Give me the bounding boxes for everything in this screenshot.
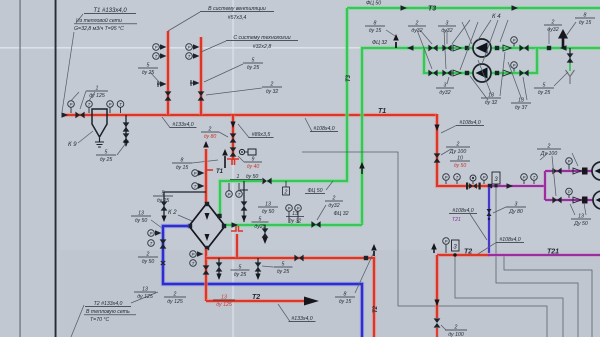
label 5/du25 strainer [534, 87, 554, 89]
gauge T on T1 [86, 101, 93, 108]
label 13/du50 K2 [131, 215, 151, 217]
tag box 3 T2 [452, 240, 460, 251]
arrow up on suction riser [361, 168, 363, 174]
gauges on blue [148, 230, 155, 237]
drain on green bottom line [264, 225, 266, 240]
svg-text:ду 25: ду 25 [157, 198, 170, 204]
relief return stub [235, 234, 239, 258]
svg-text:ду 15: ду 15 [579, 20, 592, 26]
vent arrow top of K2 feed [203, 141, 209, 148]
pipe T21 purple [488, 253, 600, 257]
svg-text:#108х4,0: #108х4,0 [452, 208, 473, 214]
gauges on K2 outlet [190, 251, 197, 258]
arrow left after merge [560, 45, 567, 50]
svg-text:2: 2 [547, 143, 551, 149]
flange lower pump [573, 197, 581, 203]
svg-text:#108х4,0: #108х4,0 [499, 237, 520, 243]
label 2/du32 [262, 86, 282, 88]
arrow on green bottom [232, 222, 239, 227]
svg-text:2: 2 [208, 126, 212, 132]
vent arrow at collector corner [373, 251, 375, 256]
pipe pump upper branch [424, 46, 600, 50]
arrow T3 top 1 [401, 5, 408, 10]
gauge upper pump [566, 158, 573, 165]
label 5/du25 drain [96, 154, 116, 156]
svg-text:5: 5 [259, 216, 262, 222]
label 13/du32 green bottom [286, 216, 304, 218]
label 2/du32 right [544, 24, 562, 26]
valve1 upper branch [428, 45, 437, 52]
label Du100 pumps [537, 148, 561, 150]
pipe purple header [490, 184, 545, 188]
svg-text:2: 2 [270, 81, 274, 87]
label 13/du125 red [213, 299, 235, 301]
vent arrow at T2 corner [433, 249, 435, 253]
arrow down on T1 drop [434, 125, 439, 132]
svg-text:Р: Р [70, 102, 73, 107]
svg-text:13: 13 [292, 211, 298, 217]
svg-text:G=32,8 м3/ч Т=95 °С: G=32,8 м3/ч Т=95 °С [74, 26, 124, 32]
svg-text:ду 50: ду 50 [454, 163, 467, 169]
vent arrow right [562, 38, 565, 48]
green hx top line valve [262, 178, 271, 185]
pump K4 upper [473, 39, 491, 57]
flange upper right [495, 46, 499, 50]
pipe T1 drop right [437, 114, 491, 186]
svg-text:8: 8 [374, 20, 377, 26]
gray boundary box [302, 152, 547, 337]
label 5/du25 mid [243, 62, 263, 64]
valve green bottom [311, 221, 320, 228]
svg-text:#108х4,0: #108х4,0 [313, 126, 334, 132]
svg-text:ФЦ 50: ФЦ 50 [366, 1, 381, 7]
svg-text:ду 80: ду 80 [204, 134, 217, 140]
svg-text:ду 25: ду 25 [538, 90, 551, 96]
relief valve lower [230, 147, 237, 156]
svg-text:Т: Т [88, 102, 91, 107]
svg-text:ду 15: ду 15 [176, 165, 189, 171]
svg-text:3: 3 [444, 82, 447, 88]
valve on indigo drop [487, 209, 492, 216]
svg-text:2: 2 [146, 251, 150, 257]
leaders gauges [71, 92, 95, 101]
label 5/du25 left [138, 67, 158, 69]
svg-text:3: 3 [446, 20, 449, 26]
svg-text:Т: Т [194, 184, 197, 189]
svg-text:ду32: ду32 [328, 203, 339, 209]
svg-text:Р: Р [445, 239, 448, 244]
svg-text:5: 5 [147, 62, 150, 68]
riser1 gauge P [153, 44, 160, 51]
svg-text:ду 50: ду 50 [142, 259, 155, 265]
svg-text:Р: Р [109, 102, 112, 107]
svg-text:Р: Р [523, 175, 526, 180]
svg-text:ду 100: ду 100 [448, 332, 464, 337]
svg-text:Р: Р [513, 38, 516, 43]
pipe T3 top main [347, 6, 600, 10]
blue pipe from K2 [163, 226, 362, 337]
flange after merge [547, 46, 551, 50]
drain with Y strainer [569, 48, 571, 64]
junction dot T2 [453, 253, 456, 256]
valve on K2 drain [161, 201, 168, 210]
gray stair leader 2 [455, 256, 563, 337]
K2 flange green tap [217, 214, 221, 218]
red collector y258 [206, 258, 374, 337]
svg-text:ФЦ 32: ФЦ 32 [372, 40, 387, 46]
svg-text:ФЦ 32: ФЦ 32 [333, 211, 348, 217]
svg-text:Из тепловой сети: Из тепловой сети [76, 17, 122, 24]
svg-text:8: 8 [584, 12, 587, 18]
valve on T2 drop [434, 318, 441, 327]
pipe T2 right horizontal [437, 253, 490, 257]
svg-text:Т21: Т21 [547, 249, 559, 256]
svg-text:1: 1 [237, 174, 240, 180]
gauges on green hx top [226, 191, 233, 198]
svg-text:Р: Р [188, 45, 191, 50]
svg-text:2: 2 [454, 324, 458, 330]
pipe green suction riser [362, 48, 424, 225]
svg-text:5: 5 [105, 149, 108, 155]
svg-text:ду32: ду32 [439, 90, 450, 96]
extra leaders pump web [500, 52, 505, 96]
label 13/du50 green [258, 206, 278, 208]
T2 out big arrow [304, 297, 319, 306]
check valve upper right [503, 45, 511, 51]
svg-text:ду 125: ду 125 [167, 299, 183, 305]
K2 flange bottom [205, 246, 209, 250]
svg-text:Т: Т [119, 102, 122, 107]
label 3/Du80 [506, 206, 526, 208]
svg-text:#89х3,5: #89х3,5 [252, 132, 271, 138]
label 2/du80 red [201, 131, 219, 133]
svg-text:К 9: К 9 [68, 142, 77, 148]
arrow T3 top 2 [512, 5, 519, 10]
svg-text:Р: Р [288, 206, 291, 211]
drain stub 2 on collector [257, 258, 259, 276]
svg-text:Р: Р [228, 192, 231, 197]
svg-text:Т3: Т3 [346, 74, 352, 82]
svg-text:ду 50: ду 50 [262, 209, 275, 215]
valve on red collector [294, 255, 303, 262]
svg-text:Р: Р [192, 252, 195, 257]
label 13/Du50 [571, 218, 591, 220]
valve upper pump branch [552, 168, 561, 175]
svg-text:ду 15: ду 15 [369, 28, 382, 34]
red stub below valve [435, 328, 438, 337]
strainer K9 vessel [92, 109, 107, 137]
svg-text:Т2: Т2 [252, 294, 260, 301]
flange upper left [465, 46, 469, 50]
svg-text:#133х4,0: #133х4,0 [172, 122, 193, 128]
label 13/du32 low [481, 97, 501, 99]
label 8/du15 [172, 162, 192, 164]
label T1 at K2 feed [207, 169, 213, 171]
pipe purple lower branch [545, 198, 600, 202]
svg-text:ФЦ 50: ФЦ 50 [307, 188, 322, 194]
label 5/du25 green [252, 221, 269, 223]
gauges on K2 feed [192, 170, 199, 177]
fold crease vertical [232, 0, 234, 337]
gauge upper [511, 37, 518, 44]
svg-text:5: 5 [162, 190, 165, 196]
flange on red collector [364, 256, 368, 260]
pipe riser ventilation [166, 31, 170, 115]
label 2/du125 [164, 296, 186, 298]
svg-text:Р: Р [155, 45, 158, 50]
gauges on low header [443, 174, 450, 181]
svg-text:Т: Т [155, 54, 158, 59]
pump K1 upper [592, 162, 600, 180]
svg-text:Р: Р [483, 175, 486, 180]
drain valve 2 [123, 133, 130, 142]
gauge lower pump [566, 188, 573, 195]
svg-text:#133х4,0: #133х4,0 [291, 316, 312, 322]
svg-text:ду 25: ду 25 [247, 65, 260, 71]
label 3/du32 upper valves [438, 25, 456, 27]
svg-text:В тепловую сеть: В тепловую сеть [86, 309, 130, 315]
relief valve upper [230, 133, 237, 142]
svg-text:8: 8 [181, 157, 184, 163]
label 2/Du100 [446, 146, 470, 148]
K2 flange left [188, 224, 192, 228]
relief break hooks [227, 159, 239, 165]
svg-text:Т: Т [533, 175, 536, 180]
svg-text:10: 10 [457, 155, 463, 161]
label 5/du25 K2 [153, 195, 173, 197]
pipe relief tee drop [231, 115, 235, 160]
svg-text:К 4: К 4 [492, 14, 501, 20]
gauge P on T1 [68, 101, 75, 108]
riser2 valve [198, 91, 205, 100]
relief pilot box [245, 151, 248, 153]
svg-text:ду 32: ду 32 [485, 100, 498, 106]
check valve lower [453, 70, 461, 76]
pipe riser technology [199, 37, 203, 115]
svg-text:#32х2,8: #32х2,8 [253, 44, 272, 50]
svg-text:Р: Р [568, 159, 571, 164]
svg-text:2: 2 [332, 195, 336, 201]
svg-text:#57х3,4: #57х3,4 [228, 15, 247, 21]
relief arrow down [230, 122, 235, 129]
riser2 gauge P [186, 44, 193, 51]
label 10/du50 red [450, 160, 470, 162]
gauge T2 on T1 [117, 101, 124, 108]
label 8/du15 right [575, 17, 595, 19]
label 5/du25 stub1 [231, 269, 250, 271]
label 2/du100 bottom [445, 329, 467, 331]
valve on K2 outlet [203, 265, 210, 274]
vent arrow near pump tee [395, 42, 397, 48]
svg-text:2: 2 [456, 141, 460, 147]
svg-text:5: 5 [252, 57, 255, 63]
svg-text:Т2: Т2 [464, 249, 472, 256]
tag box 3 on header [492, 172, 500, 184]
riser1 valve [165, 91, 172, 100]
valve on blue vertical [160, 239, 167, 248]
gray stair leader 4 [504, 256, 592, 337]
flow tick on blue [161, 261, 165, 265]
svg-text:ду 25: ду 25 [100, 157, 113, 163]
svg-text:8: 8 [344, 291, 347, 297]
fold crease horizontal [0, 47, 600, 49]
label 2/du50 blue [138, 256, 158, 258]
svg-text:2: 2 [415, 20, 419, 26]
svg-text:5: 5 [282, 261, 285, 267]
valve main inlet [75, 112, 84, 119]
gauge P2 on T1 [107, 101, 114, 108]
svg-text:ду 37: ду 37 [515, 105, 529, 111]
svg-text:Т1 #133х4,0: Т1 #133х4,0 [93, 8, 127, 14]
valve2 lower branch [442, 70, 451, 77]
svg-text:ду 125: ду 125 [216, 302, 232, 308]
label 9/du40 red [244, 161, 262, 163]
leader web pumps [452, 20, 470, 44]
svg-text:Т: Т [150, 241, 153, 246]
svg-text:13: 13 [578, 213, 584, 219]
svg-text:К 2: К 2 [168, 210, 177, 216]
red K2 outlet vertical [204, 249, 208, 301]
valve3 lower branch [519, 70, 528, 77]
arrow down on T2 drop [434, 300, 439, 307]
svg-text:Р: Р [150, 231, 153, 236]
drawing frame line gray [19, 0, 20, 337]
svg-text:#108х4,0: #108х4,0 [459, 120, 480, 126]
svg-text:ду 125: ду 125 [89, 93, 105, 99]
drawing frame line dark [55, 0, 57, 337]
svg-text:Т: Т [456, 175, 459, 180]
riser2 tap arrow [193, 80, 200, 85]
pipe T1 main horizontal [62, 113, 437, 117]
drain valve 1 [123, 122, 130, 131]
flange lower right [495, 71, 499, 75]
pipe purple upper branch [545, 169, 600, 173]
svg-text:ду 15: ду 15 [339, 299, 352, 305]
pump K4 lower [473, 64, 491, 82]
svg-text:13: 13 [265, 201, 271, 207]
T1 start arrow [62, 112, 69, 117]
pipe pump lower branch [424, 48, 537, 73]
pump K1 lower [593, 191, 600, 209]
svg-text:3: 3 [515, 201, 518, 207]
pipe T2 drop right [435, 255, 439, 318]
svg-text:5: 5 [239, 264, 242, 270]
svg-text:Т: Т [192, 261, 195, 266]
svg-text:В систему вентиляции: В систему вентиляции [208, 6, 266, 12]
gauge on T2 right [443, 238, 450, 245]
svg-text:9: 9 [252, 156, 255, 162]
valve1 lower branch [428, 70, 437, 77]
riser1 gauge T [153, 53, 160, 60]
svg-text:Т2: Т2 [373, 305, 379, 313]
svg-text:Т2 #133х4,0: Т2 #133х4,0 [94, 301, 123, 307]
svg-text:С систему технологии: С систему технологии [233, 35, 290, 41]
svg-text:2: 2 [551, 19, 555, 25]
svg-text:2: 2 [173, 291, 177, 297]
svg-text:Т21: Т21 [452, 217, 461, 223]
bypass drain between green lines [243, 181, 245, 222]
gauges on green bottom [286, 205, 293, 212]
gauge after control valve [481, 174, 488, 181]
vent arrow mid [224, 156, 226, 168]
pipe green hx outlet top [220, 181, 262, 215]
black drain from K2 feed [164, 192, 206, 218]
svg-text:Р: Р [194, 171, 197, 176]
svg-text:Р: Р [445, 175, 448, 180]
svg-text:13: 13 [138, 210, 144, 216]
svg-text:ду 25: ду 25 [277, 269, 290, 275]
svg-text:ду 32: ду 32 [289, 219, 302, 225]
valve2 upper branch [442, 45, 451, 52]
pipe green hx outlet bottom [226, 223, 362, 227]
svg-text:ду 50: ду 50 [135, 218, 148, 224]
svg-text:ду 25: ду 25 [234, 272, 247, 278]
K2 flange top [205, 202, 209, 206]
drain stub 1 on collector [218, 258, 220, 276]
svg-text:Т3: Т3 [428, 6, 436, 13]
arrow left on suction [407, 45, 414, 50]
label 8/du15 pump area [365, 25, 385, 27]
svg-text:ду 40: ду 40 [247, 164, 260, 170]
leader to T1 start [62, 32, 74, 112]
svg-text:Т1: Т1 [216, 169, 224, 175]
gray stair leader 3 [496, 188, 578, 337]
label 2/du32 upper valves [408, 25, 426, 27]
label 1/du125 [86, 90, 108, 92]
svg-text:Ду 100: Ду 100 [540, 151, 558, 157]
svg-text:Ду 80: Ду 80 [508, 209, 523, 215]
pipe purple split vertical [543, 171, 547, 200]
label 2/du32 green bottom [325, 200, 343, 202]
red T2 out line [206, 299, 305, 303]
svg-text:Ду 50: Ду 50 [573, 221, 588, 227]
svg-text:Т1: Т1 [378, 108, 386, 115]
flange upper pump [573, 168, 581, 174]
svg-text:Ду 100: Ду 100 [449, 149, 467, 155]
svg-text:ду 32: ду 32 [266, 89, 279, 95]
heat exchanger K2 body [189, 203, 225, 249]
riser1 tap arrow [160, 81, 167, 86]
label 3/du32 lower branch [436, 87, 454, 89]
svg-text:ду 50: ду 50 [246, 174, 259, 180]
valve lower pump branch [552, 197, 561, 204]
svg-text:Т: Т [238, 192, 241, 197]
pipe T3 riser [267, 8, 347, 181]
label 13/du125 [134, 291, 156, 293]
svg-text:Р: Р [568, 190, 571, 195]
indigo drop line [487, 187, 490, 253]
tag box 2 [283, 187, 290, 195]
pipe K2 red feed [204, 149, 208, 203]
svg-text:1: 1 [96, 85, 99, 91]
gauges on purple header [521, 174, 528, 181]
check valve lower right [503, 70, 511, 76]
arrow on purple header [507, 183, 514, 188]
riser2 gauge T [186, 53, 193, 60]
label 8/du15 collector [335, 296, 355, 298]
check valve upper [453, 45, 461, 51]
svg-text:Т: Т [188, 54, 191, 59]
control valve on low header [466, 183, 468, 190]
svg-text:5: 5 [543, 82, 546, 88]
label 13/du37 low [511, 102, 531, 104]
gauge lower [511, 62, 518, 69]
drain branch after K9 [125, 115, 127, 144]
K2 flange right [222, 224, 226, 228]
svg-text:13: 13 [221, 294, 227, 300]
svg-text:2: 2 [284, 190, 288, 196]
label 5/du25 stub2 [274, 266, 293, 268]
